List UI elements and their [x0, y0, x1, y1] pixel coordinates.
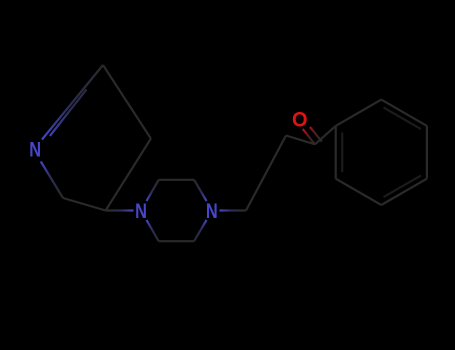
carbonyl C=O double bond (second line)	[310, 127, 322, 142]
pyridine bond C5-N	[41, 162, 63, 199]
benzene inner double-bond line LL-UL	[341, 132, 343, 172]
piperazine bond N1-Ctl	[147, 180, 159, 201]
bond Cco-Cipso	[315, 126, 336, 144]
piperazine bond Ctr-N2	[194, 180, 206, 201]
piperazine bond Cbr-N2	[194, 220, 206, 241]
pyridine bond C2-C3	[103, 65, 151, 139]
benzene edge UR-LR (right)	[426, 126, 428, 179]
bond C4 to piperazine N1	[106, 209, 134, 211]
piperazine bond Cbl-Cbr (bottom edge)	[159, 240, 194, 242]
benzene inner double-bond line LR-bottom	[384, 176, 421, 198]
benzene inner double-bond line top-UR	[384, 108, 421, 130]
pyridine bond C4-C5	[63, 198, 106, 211]
svg-text:N: N	[206, 199, 218, 222]
pyridine ring N=C2 double bond (inner line)	[50, 89, 87, 135]
benzene edge bottom-LL	[336, 179, 382, 205]
svg-text:O: O	[292, 108, 308, 132]
svg-text:N: N	[29, 138, 41, 161]
benzene edge LL-UL (left)	[335, 126, 337, 179]
chain bond N2-Ca	[220, 209, 247, 211]
carbonyl C=O double bond (main line)	[303, 129, 315, 145]
svg-text:N: N	[135, 199, 147, 222]
benzene edge UL-top	[336, 100, 382, 126]
benzene edge top-UR	[381, 100, 427, 126]
chain bond Cb-Cco	[286, 136, 315, 145]
pyridine ring N=C2 double bond (main line)	[42, 65, 103, 140]
benzene edge LR-bottom	[381, 179, 427, 205]
chain bond Ca-Cb	[246, 136, 286, 211]
piperazine bond Ctl-Ctr (top edge)	[159, 179, 194, 181]
pyridine bond C3-C4	[106, 139, 151, 211]
piperazine bond N1-Cbl	[147, 220, 159, 241]
